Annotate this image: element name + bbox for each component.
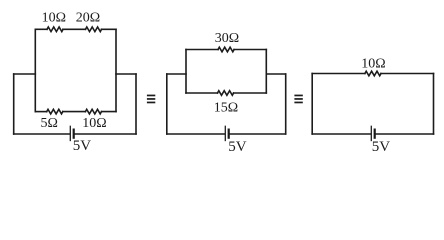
resistor 30Ω (circuit 2 top branch) <box>218 47 234 52</box>
svg-text:5Ω: 5Ω <box>40 116 57 131</box>
wire: circuit 1 lower branch right lead <box>102 111 117 113</box>
wire: circuit 1 lower branch left lead <box>35 111 46 113</box>
wire: circuit 3 right vertical <box>433 74 435 135</box>
resistor 10Ω (circuit 3 top) <box>365 71 381 76</box>
battery 5V (circuit 3) positive long plate <box>370 126 372 140</box>
battery 5V (circuit 1) negative short plate <box>73 130 75 138</box>
wire: circuit 1 bottom left segment <box>14 133 70 135</box>
wire: circuit 1 top branch middle <box>63 28 86 30</box>
equivalence symbol between circuit 1 and circuit 2 <box>147 95 155 104</box>
wire: circuit 2 inner right vertical (parallel node) <box>265 50 267 94</box>
wire: circuit 2 top branch right lead <box>234 49 266 51</box>
equivalence symbol between circuit 2 and circuit 3 <box>294 95 302 104</box>
wire: circuit 2 outer right vertical <box>285 74 287 134</box>
wire: circuit 3 top left lead <box>312 73 365 75</box>
resistor 10Ω (circuit 1 top-left) <box>47 27 63 32</box>
wire: circuit 3 top right lead <box>381 73 434 75</box>
wire: circuit 1 right stub to battery loop <box>116 73 136 75</box>
svg-text:30Ω: 30Ω <box>215 31 239 46</box>
resistor 10Ω (circuit 1 lower-right) <box>85 109 101 114</box>
wire: circuit 2 top branch left lead <box>186 49 218 51</box>
wire: circuit 2 right stub to battery loop <box>266 73 285 75</box>
wire: circuit 1 left stub to battery loop <box>14 73 36 75</box>
wire: circuit 3 bottom left segment <box>312 133 370 135</box>
wire: circuit 3 left vertical <box>311 74 313 135</box>
wire: circuit 1 bottom right segment <box>75 133 136 135</box>
wire: circuit 2 bottom left segment <box>167 133 225 135</box>
battery 5V (circuit 2) negative short plate <box>228 130 230 138</box>
battery 5V (circuit 3) negative short plate <box>374 130 376 138</box>
svg-text:10Ω: 10Ω <box>82 116 106 131</box>
resistor 5Ω (circuit 1 lower-left) <box>47 109 63 114</box>
battery 5V (circuit 2) positive long plate <box>224 126 226 140</box>
wire: circuit 1 lower branch middle <box>63 111 86 113</box>
wire: circuit 1 top branch left lead <box>35 28 47 30</box>
wire: circuit 1 top branch right lead <box>102 28 117 30</box>
wire: circuit 1 outer right vertical <box>135 74 137 134</box>
svg-text:5V: 5V <box>73 138 92 154</box>
svg-text:10Ω: 10Ω <box>361 57 385 72</box>
svg-text:5V: 5V <box>228 139 247 155</box>
wire: circuit 2 lower branch right lead <box>234 92 267 94</box>
battery 5V (circuit 1) positive long plate <box>69 126 71 140</box>
resistor 15Ω (circuit 2 lower branch) <box>218 91 234 96</box>
resistor 20Ω (circuit 1 top-right) <box>86 27 102 32</box>
wire: circuit 2 left stub to battery loop <box>167 73 186 75</box>
svg-text:10Ω: 10Ω <box>42 11 66 26</box>
wire: circuit 1 outer left vertical <box>13 74 15 134</box>
wire: circuit 2 inner left vertical (parallel node) <box>185 50 187 94</box>
svg-text:5V: 5V <box>372 139 391 155</box>
wire: circuit 2 bottom right segment <box>230 133 286 135</box>
wire: circuit 2 lower branch left lead <box>186 92 218 94</box>
svg-text:15Ω: 15Ω <box>214 101 238 116</box>
wire: circuit 1 inner right vertical (node joining top and lower branches) <box>115 29 117 111</box>
wire: circuit 1 inner left vertical (node joining top and lower branches) <box>34 29 36 111</box>
wire: circuit 2 outer left vertical <box>166 74 168 134</box>
svg-text:20Ω: 20Ω <box>76 11 100 26</box>
wire: circuit 3 bottom right segment <box>376 133 434 135</box>
